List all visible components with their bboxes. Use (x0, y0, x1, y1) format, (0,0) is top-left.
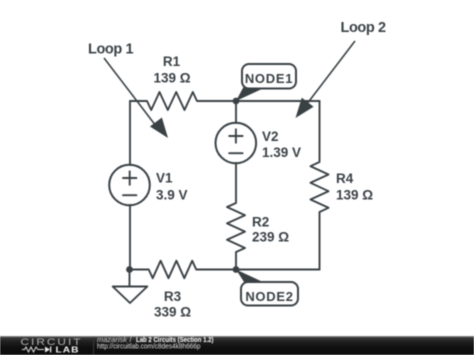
svg-text:http://circuitlab.com/c8des4k8: http://circuitlab.com/c8des4k8h666p (97, 342, 201, 351)
svg-text:NODE1: NODE1 (245, 71, 293, 86)
svg-text:139 Ω: 139 Ω (336, 188, 373, 203)
svg-text:R4: R4 (336, 171, 354, 186)
svg-text:LAB: LAB (56, 344, 80, 354)
svg-text:NODE2: NODE2 (245, 289, 293, 304)
svg-text:V1: V1 (156, 171, 173, 186)
svg-text:V2: V2 (262, 129, 279, 144)
svg-text:Loop 2: Loop 2 (341, 20, 386, 36)
svg-text:339 Ω: 339 Ω (154, 304, 191, 319)
svg-text:R1: R1 (163, 54, 181, 69)
svg-text:R2: R2 (252, 214, 269, 229)
svg-text:3.9 V: 3.9 V (156, 188, 188, 203)
svg-text:Loop 1: Loop 1 (88, 41, 133, 57)
svg-text:139 Ω: 139 Ω (153, 71, 190, 86)
svg-text:239 Ω: 239 Ω (252, 229, 289, 244)
svg-text:1.39 V: 1.39 V (262, 145, 301, 160)
svg-text:R3: R3 (164, 289, 182, 304)
